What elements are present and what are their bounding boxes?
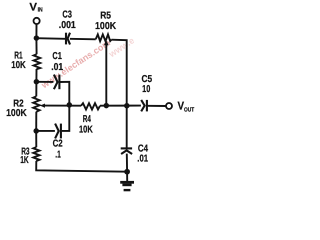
junction node right rail — [124, 103, 130, 109]
wire node C1 to R2 — [35, 82, 37, 97]
wire VIN to node — [35, 24, 37, 38]
label R4 10K — [79, 114, 93, 136]
wire R1 to node C1 — [35, 69, 37, 82]
junction node C1 — [34, 79, 40, 85]
ground — [120, 181, 134, 191]
label VOUT — [178, 100, 195, 113]
capacitor C4 — [121, 148, 132, 154]
label C3 .001 — [59, 10, 76, 32]
junction node top — [34, 35, 40, 41]
svg-text:V: V — [29, 2, 37, 14]
wire output line middle — [100, 105, 141, 107]
capacitor C2 — [55, 124, 61, 139]
svg-text:R4: R4 — [83, 114, 91, 125]
svg-text:www.e: www.e — [106, 35, 136, 59]
junction node ground — [124, 169, 130, 175]
capacitor C1 — [54, 75, 60, 90]
svg-text:.001: .001 — [59, 20, 76, 31]
capacitor C3 — [66, 33, 70, 45]
wire R3 to bottom rail corner — [36, 161, 127, 172]
resistor R4 — [81, 103, 100, 109]
wiper arrow of R2 — [40, 104, 45, 108]
resistor R3 — [33, 147, 39, 161]
svg-text:100K: 100K — [95, 21, 117, 32]
label R1 10K — [11, 51, 26, 71]
svg-text:10K: 10K — [11, 60, 26, 71]
wire top segment to C3 — [36, 37, 65, 40]
svg-text:C3: C3 — [62, 10, 72, 21]
resistor R1 — [34, 54, 41, 69]
terminal VOUT — [166, 103, 172, 109]
wire top right corner — [111, 40, 126, 148]
wire ground stub — [126, 172, 128, 181]
label R2 100K — [6, 99, 27, 119]
resistor R2 — [33, 96, 39, 111]
wire C4 to bottom rail — [126, 154, 128, 172]
wire node C2 to R3 — [35, 131, 37, 147]
label C1 .01 — [51, 51, 63, 73]
wire C2 to node — [36, 130, 55, 132]
label R5 100K — [95, 11, 117, 33]
wire C3 to R5 — [70, 38, 96, 41]
svg-text:10K: 10K — [79, 124, 93, 135]
label VIN — [29, 2, 42, 14]
wire node down corner to C2 — [62, 105, 70, 131]
svg-text:1K: 1K — [20, 155, 29, 166]
svg-text:C5: C5 — [142, 74, 153, 85]
wire C1 right corner down — [60, 82, 69, 105]
svg-text:R5: R5 — [100, 11, 111, 22]
wire R5 wiper down to output line — [105, 44, 107, 105]
wire R2 to node C2 — [35, 112, 37, 131]
resistor R5 — [96, 34, 112, 41]
svg-text:100K: 100K — [6, 108, 27, 119]
svg-text:IN: IN — [38, 6, 43, 13]
svg-text:OUT: OUT — [184, 107, 194, 114]
svg-text:10: 10 — [142, 84, 151, 95]
terminal VIN — [34, 18, 40, 24]
wire node to C1 — [36, 81, 53, 83]
wire left rail to R1 — [35, 38, 37, 54]
wiper arrow of R5 — [104, 40, 109, 45]
wire C5 to terminal — [147, 105, 166, 107]
label C2 .1 — [53, 139, 63, 161]
svg-text:C2: C2 — [53, 139, 63, 150]
label C5 10 — [142, 74, 153, 95]
svg-text:.1: .1 — [55, 150, 61, 161]
svg-text:.01: .01 — [51, 62, 63, 73]
svg-text:.01: .01 — [137, 153, 148, 164]
label C4 .01 — [137, 143, 148, 164]
capacitor C5 — [141, 100, 147, 112]
wire wiper line left part — [45, 105, 81, 107]
junction node wiper R5 — [104, 103, 110, 109]
label R3 1K — [20, 147, 30, 166]
junction node wiper — [67, 102, 73, 108]
junction node C2 — [33, 128, 39, 134]
svg-text:C1: C1 — [52, 51, 62, 62]
